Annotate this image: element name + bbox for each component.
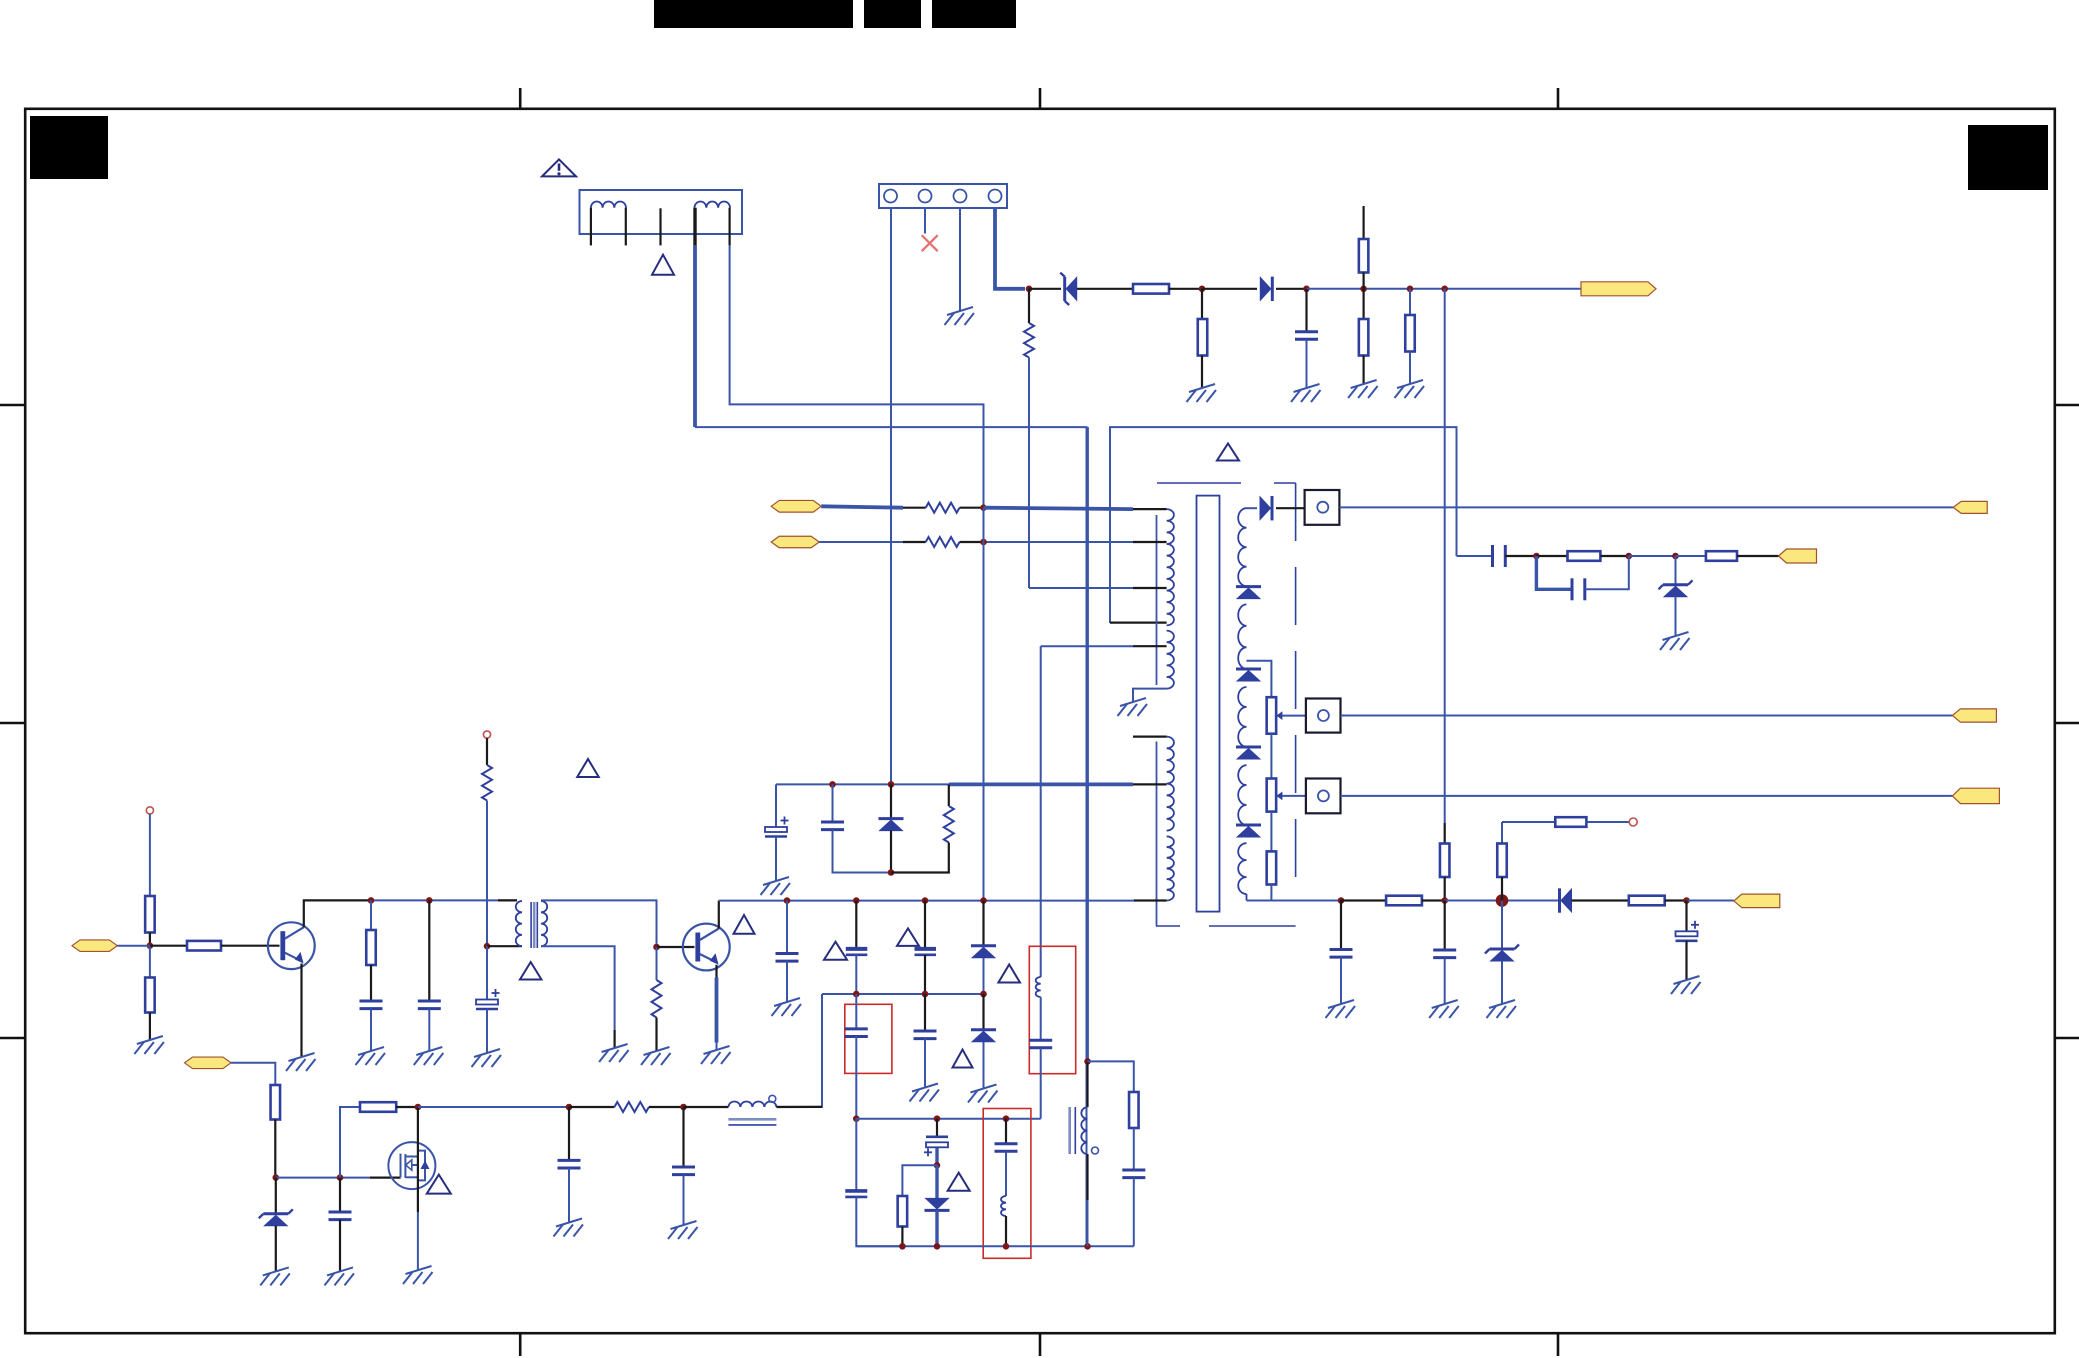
wire R10-R11 [1270,734,1272,779]
zener D1 [1060,273,1077,305]
junction J1 [853,991,860,998]
junction I4 [980,897,987,904]
wire base R link [150,945,187,947]
T2 primary winding [516,901,522,946]
wire neutral b [903,541,926,543]
ground C8 [1326,1000,1356,1018]
junction F3 [888,869,895,876]
wire snubber right [948,784,950,806]
wire rail seg1 [1029,288,1061,290]
wire R23 top [370,900,372,930]
wire fb row [856,1118,1040,1120]
flag LIVE in [771,500,821,512]
wire Z3 bottom [1501,961,1503,1004]
wire D12 bottom [935,1210,938,1246]
resistor R22 [187,941,221,951]
resistor R24 zigzag [482,765,492,801]
wire C22 top [936,1119,938,1137]
capacitor C17 [846,949,868,955]
flag FB in [72,940,117,952]
test point TP2 [146,807,153,814]
capacitor C12 polar [765,817,789,837]
wire fbw top [1086,1061,1088,1107]
wire live b [903,507,926,509]
FL1 left coil pins [591,208,626,246]
wire rail1 seg [371,899,517,901]
wire R12 bottom [1270,885,1272,901]
wire D3 to pad [1276,507,1305,509]
wire sec bottom curl [1246,894,1248,901]
resistor R14 [1629,896,1665,906]
T1 primary winding 3 [1167,737,1174,831]
junction M3 [1003,1243,1010,1250]
T1 boundary dash top [1157,482,1296,484]
tap arrow 1 [1276,711,1306,720]
wire x1040 top [1040,646,1042,977]
wire neutral c [960,541,984,543]
diode D2 [1260,277,1272,301]
junction P2 [337,1174,344,1181]
wire R3 stub top [1362,206,1364,239]
T2 core [531,902,537,948]
T2 secondary winding [541,901,547,946]
junction I1 [784,897,791,904]
wire FB [117,945,150,947]
wire C24 bottom [1040,1048,1042,1119]
ground D11 [968,1085,998,1103]
resistor R5 [1405,315,1415,352]
wire C12 link [775,784,777,827]
junction M1 [899,1243,906,1250]
wire R5 top [1409,289,1411,315]
ground R4 [1348,380,1378,398]
junction K1 [934,1115,941,1122]
capacitor C25 [1122,1170,1145,1178]
wire rail seg3 [1169,288,1202,290]
T1 secondary winding 5 [1238,843,1246,894]
diode D12 [925,1198,950,1210]
wire snubber right b [891,843,949,873]
wire branch556 c [1536,555,1567,557]
redaction bar middle [864,0,921,28]
wire D10 top [982,901,984,946]
wire L2-C24 [1040,997,1042,1040]
resistor R18 zigzag [926,537,960,547]
wire drain row b [569,1106,614,1108]
wire Q2 emitter [715,965,717,1050]
wire R21 bottom [149,1013,151,1041]
wire C15 bottom [486,1009,488,1053]
connector CN1 [879,184,1007,208]
phase dot fbw [1092,1147,1099,1154]
wire rail seg2 [1077,288,1133,290]
resistor R1 [1133,284,1169,294]
capacitor C26 [329,1212,352,1220]
junction B2 [1626,553,1633,560]
transistor Q1 [268,922,315,969]
junction A1 [1026,286,1033,293]
warning triangle W11 [948,1173,970,1191]
ground C28 [668,1221,698,1239]
wire P2 out [1341,715,1953,717]
wire rail2 [719,900,1134,902]
wire C1 bottom [1306,339,1308,388]
T1 primary winding 4 [1167,836,1174,900]
resistor R10 [1267,697,1277,734]
ground C13 [356,1047,386,1065]
resistor R7 [1568,551,1601,561]
flag B+ rail [1581,282,1656,296]
wire drain row d [684,1106,729,1108]
red box RB3 [1029,946,1075,1073]
diode D6 chain [1236,747,1261,759]
wire P1 out [1339,506,1953,508]
wire gate row [276,1177,401,1179]
wire tap784 black [1133,783,1167,785]
wire x983 vertical [983,508,985,901]
pad P1 [1305,490,1340,525]
wire R4 bottom [1362,356,1364,385]
wire C11 bottom [833,830,892,873]
ground pin3 [945,307,975,325]
resistor R3 [1359,239,1369,273]
junction E2 [980,539,987,546]
flag OUT3 [1952,788,1999,803]
redaction bar large [654,0,853,28]
resistor R21 [145,978,155,1013]
warning triangle W10 [953,1050,973,1068]
wire R15 out [1586,821,1629,823]
capacitor C14 [418,1001,441,1009]
wire out row b [1341,899,1386,901]
resistor R13 [1386,896,1422,906]
ground C1 [1291,384,1321,402]
wire C9 top [1444,901,1446,951]
junction M2 [934,1243,941,1250]
wire C21 bottom [924,1039,926,1088]
wire gate in [231,1063,275,1085]
line filter FL1 box [580,190,743,234]
junction J3 [980,991,987,998]
junction E1 [980,504,987,511]
resistor R26 [898,1196,908,1227]
phase dot L3 [769,1095,776,1102]
wire Z4 bottom [275,1226,277,1272]
T1 secondary winding 3 [1238,687,1246,747]
wire Q2 collector [718,901,720,929]
wire rail seg4 [1202,288,1257,290]
capacitor C8 [1330,950,1353,958]
wire C18 top [924,901,926,949]
wire bottom rail [856,1245,1134,1247]
wire R29 out [396,1106,418,1108]
diode D9 lead [890,784,892,818]
wire C19 bottom [855,1037,857,1119]
resistor R17 zigzag [926,503,960,513]
inductor L1 [1001,1196,1006,1216]
wire R5 bottom [1409,352,1411,385]
resistor R6 [1440,844,1450,878]
capacitor C23 [995,1144,1018,1152]
warning triangle W4 [520,962,542,980]
wire C20 top [855,1119,857,1191]
wire live c [960,507,984,509]
wire branch556 b [1505,555,1536,557]
wire R28 bottom [274,1120,276,1178]
junction P5 [680,1104,687,1111]
test point TP1 [1629,818,1637,826]
flag GATE in [185,1057,232,1069]
wire C27 bottom [568,1168,570,1223]
capacitor C9 [1433,950,1456,958]
junction A3 [1303,286,1310,293]
junction A5 [1407,286,1414,293]
resistor R2 [1198,319,1208,356]
capacitor C10 polar [1676,921,1700,941]
flag STBY out [1734,894,1780,908]
T1 link bar lower [1156,742,1158,927]
junction M4 [1084,1243,1091,1250]
resistor R27 [1129,1092,1139,1128]
warning triangle W6 [734,915,755,934]
flag OUT1 [1953,501,1987,513]
wire L3 out [776,1106,822,1108]
resistor R9 zigzag [1024,323,1034,358]
junction K2 [1003,1115,1010,1122]
junction H2 [426,897,433,904]
capacitor C28 [672,1167,695,1175]
wire P3 out [1341,795,1953,797]
warning triangle W2 [652,255,674,275]
wire C1 top [1305,289,1307,332]
capacitor C13 [360,1001,383,1009]
wire snubber top thick [949,783,1133,787]
ground Z2 [1660,632,1690,650]
wire tap509 black [1133,508,1167,510]
wire x822 drop [776,994,822,1107]
wire Q1 base [221,945,280,947]
junction C6 big [1496,894,1509,907]
resistor R15 [1555,817,1586,827]
junction P1 [273,1174,280,1181]
ground C10 [1671,976,1701,994]
wire C12 bottom [775,837,777,882]
junction J2 [922,991,929,998]
ground R2 [1187,384,1217,402]
ground C12 [761,877,791,895]
wire tap646 [1041,645,1167,647]
wire R26 route [902,1165,937,1196]
wire filter out2 [730,245,984,507]
redaction bar right [932,0,1016,28]
flag AUX out [1779,549,1817,563]
FL1 right coil pins [695,208,730,246]
warning triangle W3 [1217,444,1239,461]
wire C16 top [786,901,788,954]
resistor R20 [145,896,155,933]
wire C10 top [1685,901,1687,932]
wire C16 bottom [786,961,788,1002]
wire jog 1029 b [1028,358,1030,589]
wire R27-C25 [1133,1128,1135,1170]
T1 boundary dash bottom [1156,925,1296,927]
wire TP3 down [486,738,488,765]
junction F1 [829,781,836,788]
diode D11 [971,1030,996,1042]
wire C14 bottom [428,1009,430,1051]
wire C18 bottom [924,955,926,994]
junction P3 [415,1104,422,1111]
wire D9 bottom [890,831,892,873]
T1 primary winding 2 [1167,631,1174,689]
T1 secondary winding 4 [1238,765,1246,825]
wire branch556 g [1737,555,1779,557]
junction J4 [853,1115,860,1122]
warning triangle W7 [824,942,847,960]
ground Q1 [286,1053,316,1071]
junction G1 [147,942,154,949]
warning triangle W12 [427,1175,451,1194]
wire R15 link [1502,821,1555,823]
junction I2 [853,897,860,904]
wire neutral a [819,541,903,543]
ground C26 [325,1267,355,1285]
ground Z3 [1487,1000,1517,1018]
capacitor C27 [558,1160,581,1168]
wire branch556 f [1676,555,1706,557]
capacitor C22 polar inv [924,1137,948,1157]
wire filter out1 [693,245,697,427]
title block right [1968,125,2048,190]
wire R16 top [1501,822,1503,844]
wire jog 1029 [1028,289,1030,323]
warning triangle W8 [897,928,919,946]
wire C19 top [855,994,857,1029]
transistor Q2 [683,924,730,971]
pad P3 [1306,779,1341,814]
wire C13 bottom [370,1009,372,1051]
wire snub row [822,993,984,995]
diode D10 [971,946,996,958]
T1 secondary winding 1 [1238,508,1246,586]
wire T2 sec top [541,900,657,947]
test point TP3 [483,731,490,738]
ground C27 [554,1219,584,1237]
zener Z3 [1485,945,1519,962]
red box RB2 [983,1109,1031,1259]
wire C23-L1 [1005,1151,1007,1196]
wire R2 bottom [1201,356,1203,389]
junction N1 [1084,1058,1091,1065]
diode D8 [1560,888,1572,912]
capacitor C19 [845,1029,868,1037]
mosfet Q3 [388,1142,435,1189]
wire Z2 bottom [1675,597,1677,636]
tap arrow 2 [1276,792,1306,801]
capacitor C24 [1029,1040,1052,1048]
wire D12 top [935,1165,938,1198]
resistor R16 [1497,844,1507,878]
wire sec top [1247,507,1258,509]
junction H1 [368,897,375,904]
ground R25 [641,1047,671,1065]
wire C28 bottom [683,1175,685,1225]
junction H4 [653,944,660,951]
ground C16 [772,998,802,1016]
wire D10 bottom [983,958,985,994]
pad P2 [1306,699,1341,733]
warning triangle W1 [542,159,576,176]
wire C17 bottom [855,955,857,994]
wire Q3 drain [417,1107,419,1142]
wire C28 top [682,1107,684,1167]
wire C27 top [568,1107,570,1160]
flag NEUTRAL in [771,536,819,548]
wire R16 bottom [1501,877,1503,901]
junction A2 [1199,286,1206,293]
wire C3 loop b [1585,556,1629,589]
T1 primary winding 1 [1167,509,1174,625]
ground Z4 [260,1267,290,1285]
capacitor C15 polar [476,989,500,1009]
ground C15 [472,1049,502,1067]
wire C8 top [1340,901,1342,950]
capacitor C11 top lead [832,784,834,822]
wire R23-C13 [370,965,372,1001]
wire C21 top [924,994,926,1031]
diode D5 chain [1236,669,1261,681]
wire drain row c [649,1106,684,1108]
wire drain row a [418,1106,569,1108]
wire R24 down [486,801,488,947]
wire Q1 collector [304,900,371,927]
wire C22 bottom [935,1148,938,1166]
wire out row a [1247,900,1342,902]
wire C20 bottom [856,1197,902,1246]
inductor L3 core [728,1119,776,1125]
wire out row g [1687,900,1734,902]
FL1 left coil [591,202,626,208]
wire live a [821,506,903,507]
wire CN1 pin4 [995,208,1025,289]
resistor R23 [366,930,376,965]
wire R25 top [656,947,658,980]
FL1 right coil [695,202,730,208]
red box RB1 [845,1004,892,1073]
zener Z2 [1659,580,1693,597]
wire snubber top [776,783,949,785]
ground C14 [414,1047,444,1065]
capacitor C3 [1572,578,1585,600]
resistor R28 [271,1085,281,1120]
wire D11 bottom [983,1042,985,1089]
ground R21 [134,1036,164,1054]
wire CN1 pin2 stub [924,208,926,234]
red X no-connect [922,235,938,251]
T2 fb core [1070,1107,1076,1154]
wire N1 branch [1088,1061,1134,1092]
wire branch556 e [1629,555,1676,557]
junction C4 [1338,897,1345,904]
wire Q1 emitter [300,964,302,1058]
wire out row d [1445,900,1560,902]
inductor L2 [1036,977,1041,997]
junction P4 [566,1104,573,1111]
T1 boundary dash right [1295,483,1297,880]
warning triangle W5 [577,759,599,777]
T1 secondary winding 2 [1238,604,1246,668]
flag OUT2 [1952,709,1996,722]
